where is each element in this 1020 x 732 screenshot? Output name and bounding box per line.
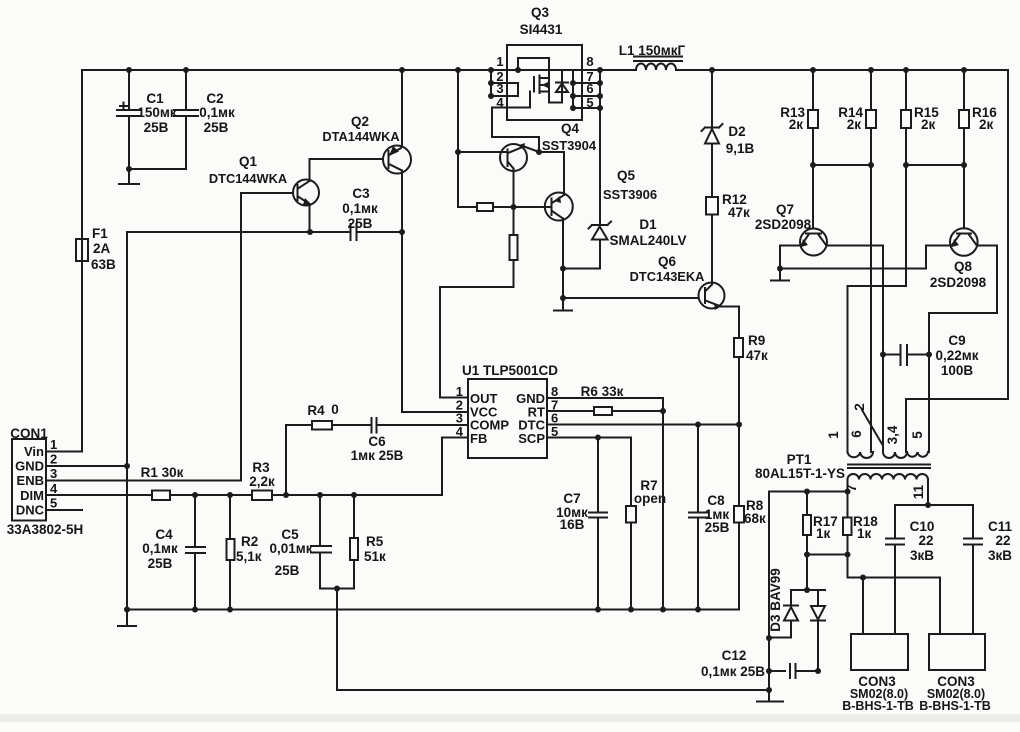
svg-text:25В: 25В — [204, 120, 229, 135]
svg-text:3кВ: 3кВ — [988, 548, 1012, 563]
svg-text:open: open — [634, 491, 666, 506]
svg-text:25В: 25В — [148, 556, 173, 571]
svg-text:Q1: Q1 — [239, 154, 258, 169]
svg-text:Q7: Q7 — [776, 202, 794, 217]
svg-text:U1 TLP5001CD: U1 TLP5001CD — [462, 363, 558, 378]
svg-text:Q5: Q5 — [617, 168, 636, 183]
svg-text:SST3906: SST3906 — [603, 187, 657, 202]
svg-text:1: 1 — [826, 431, 841, 439]
svg-text:C6: C6 — [368, 434, 386, 449]
svg-text:SST3904: SST3904 — [542, 138, 597, 153]
svg-text:C9: C9 — [948, 333, 965, 348]
svg-text:8: 8 — [586, 54, 593, 69]
svg-text:C11: C11 — [988, 519, 1013, 534]
svg-text:80AL15T-1-YS: 80AL15T-1-YS — [755, 466, 845, 481]
svg-text:5: 5 — [551, 424, 558, 439]
svg-text:Q4: Q4 — [561, 121, 580, 136]
svg-text:2к: 2к — [847, 117, 862, 132]
svg-text:1: 1 — [50, 437, 57, 452]
svg-text:C3: C3 — [352, 186, 370, 201]
svg-text:2к: 2к — [979, 117, 994, 132]
svg-text:CON1: CON1 — [10, 426, 48, 441]
svg-text:0,1мк 25В: 0,1мк 25В — [701, 664, 765, 679]
svg-text:3: 3 — [496, 81, 503, 96]
svg-text:0,1мк: 0,1мк — [142, 541, 178, 556]
svg-text:3кВ: 3кВ — [910, 548, 934, 563]
svg-text:2,2к: 2,2к — [249, 474, 275, 489]
svg-text:Vin: Vin — [24, 444, 44, 459]
svg-text:2: 2 — [50, 452, 57, 467]
svg-text:0,1мк: 0,1мк — [342, 201, 378, 216]
svg-text:25В: 25В — [275, 563, 300, 578]
svg-text:0,01мк: 0,01мк — [269, 541, 312, 556]
svg-text:DIM: DIM — [20, 488, 44, 503]
svg-text:3,4: 3,4 — [885, 425, 900, 444]
svg-text:25В: 25В — [348, 216, 373, 231]
svg-text:R6 33к: R6 33к — [581, 384, 624, 399]
svg-text:PT1: PT1 — [787, 452, 812, 467]
svg-text:5: 5 — [910, 431, 925, 439]
svg-text:C2: C2 — [206, 91, 223, 106]
svg-text:Q2: Q2 — [351, 114, 369, 129]
svg-text:C4: C4 — [155, 527, 173, 542]
svg-text:DTA144WKA: DTA144WKA — [322, 129, 399, 144]
svg-text:4: 4 — [50, 481, 58, 496]
svg-text:Q3: Q3 — [531, 5, 550, 20]
svg-text:R2: R2 — [241, 534, 258, 549]
svg-text:ENB: ENB — [17, 473, 44, 488]
svg-text:100В: 100В — [941, 363, 974, 378]
svg-text:2к: 2к — [789, 117, 804, 132]
svg-text:0: 0 — [331, 402, 339, 417]
svg-text:33A3802-5H: 33A3802-5H — [7, 522, 84, 537]
svg-text:22: 22 — [918, 533, 933, 548]
svg-text:7: 7 — [844, 484, 859, 492]
svg-text:150мк: 150мк — [137, 105, 177, 120]
svg-text:3: 3 — [50, 466, 57, 481]
svg-text:R1 30к: R1 30к — [141, 465, 184, 480]
svg-text:DTC144WKA: DTC144WKA — [209, 171, 287, 186]
svg-text:DTC143EKA: DTC143EKA — [630, 269, 705, 284]
svg-text:2: 2 — [852, 403, 867, 411]
svg-text:68к: 68к — [744, 511, 766, 526]
svg-text:25В: 25В — [144, 120, 169, 135]
svg-text:Q8: Q8 — [954, 259, 973, 274]
svg-text:6: 6 — [586, 81, 593, 96]
svg-text:4: 4 — [456, 424, 464, 439]
svg-text:SCP: SCP — [518, 431, 545, 446]
svg-text:16В: 16В — [560, 517, 585, 532]
svg-text:D1: D1 — [639, 217, 657, 232]
svg-text:25В: 25В — [705, 520, 730, 535]
svg-text:2SD2098: 2SD2098 — [755, 217, 812, 232]
svg-text:C8: C8 — [707, 493, 725, 508]
svg-text:4: 4 — [496, 95, 504, 110]
svg-text:5,1к: 5,1к — [236, 549, 262, 564]
svg-text:L1 150мкГ: L1 150мкГ — [619, 43, 686, 58]
svg-text:47к: 47к — [746, 348, 768, 363]
svg-text:D2: D2 — [728, 124, 745, 139]
svg-text:5: 5 — [50, 495, 57, 510]
svg-text:1к: 1к — [857, 526, 872, 541]
svg-text:5: 5 — [586, 95, 593, 110]
svg-text:0,1мк: 0,1мк — [199, 105, 235, 120]
svg-text:GND: GND — [15, 459, 44, 474]
svg-text:R5: R5 — [366, 534, 384, 549]
svg-text:C5: C5 — [281, 527, 299, 542]
svg-text:C1: C1 — [146, 91, 164, 106]
svg-text:Q6: Q6 — [658, 254, 677, 269]
svg-text:F1: F1 — [92, 226, 108, 241]
svg-text:6: 6 — [849, 430, 864, 438]
svg-text:C10: C10 — [910, 519, 935, 534]
svg-text:C7: C7 — [563, 491, 580, 506]
svg-text:63В: 63В — [91, 257, 116, 272]
svg-text:2A: 2A — [93, 241, 111, 256]
svg-text:C12: C12 — [722, 648, 747, 663]
svg-text:22: 22 — [995, 533, 1010, 548]
svg-text:B-BHS-1-TB: B-BHS-1-TB — [842, 699, 914, 713]
svg-text:9,1В: 9,1В — [726, 141, 755, 156]
svg-text:1к: 1к — [816, 526, 831, 541]
svg-text:1мк 25В: 1мк 25В — [351, 448, 404, 463]
svg-text:R3: R3 — [252, 460, 270, 475]
svg-text:B-BHS-1-TB: B-BHS-1-TB — [919, 699, 991, 713]
svg-text:FB: FB — [470, 431, 487, 446]
svg-text:D3 BAV99: D3 BAV99 — [768, 568, 783, 632]
svg-text:47к: 47к — [728, 205, 750, 220]
svg-text:51к: 51к — [364, 549, 386, 564]
svg-text:DNC: DNC — [16, 502, 45, 517]
svg-text:R9: R9 — [748, 333, 765, 348]
svg-text:SI4431: SI4431 — [520, 22, 563, 37]
svg-text:R4: R4 — [307, 403, 325, 418]
svg-text:1: 1 — [496, 54, 503, 69]
svg-text:2SD2098: 2SD2098 — [930, 275, 987, 290]
svg-text:0,22мк: 0,22мк — [935, 348, 978, 363]
svg-text:2к: 2к — [921, 117, 936, 132]
svg-text:11: 11 — [911, 484, 926, 499]
svg-text:SMAL240LV: SMAL240LV — [609, 233, 686, 248]
